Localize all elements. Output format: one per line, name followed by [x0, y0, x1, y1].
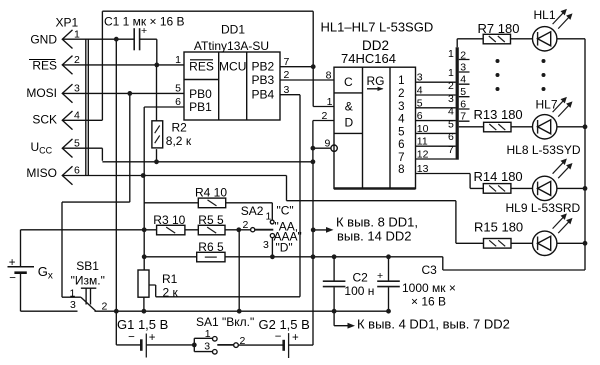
svg-text:R15 180: R15 180: [474, 220, 523, 235]
svg-text:RES: RES: [32, 59, 57, 73]
svg-text:"C": "C": [277, 204, 294, 218]
svg-text:+: +: [9, 257, 16, 269]
svg-text:R6 5: R6 5: [198, 240, 224, 254]
svg-text:−: −: [9, 273, 16, 285]
svg-text:6: 6: [460, 99, 466, 111]
svg-text:RG: RG: [367, 74, 385, 88]
svg-text:G1 1,5 В: G1 1,5 В: [117, 317, 168, 332]
svg-text:MISO: MISO: [26, 166, 57, 180]
svg-text:HL1–HL7 L-53SGD: HL1–HL7 L-53SGD: [321, 19, 434, 34]
svg-text:8,2 к: 8,2 к: [166, 134, 192, 148]
svg-text:2: 2: [243, 219, 249, 231]
svg-text:R7 180: R7 180: [478, 21, 520, 36]
svg-text:4: 4: [448, 106, 454, 118]
svg-text:4: 4: [74, 110, 80, 122]
svg-text:× 16 В: × 16 В: [411, 295, 446, 309]
svg-text:&: &: [345, 100, 353, 114]
svg-text:10: 10: [417, 123, 429, 135]
svg-text:6: 6: [417, 110, 423, 122]
svg-text:6: 6: [448, 131, 454, 143]
svg-text:R2: R2: [172, 121, 188, 135]
svg-text:DD1: DD1: [221, 23, 245, 37]
svg-text:G2 1,5 В: G2 1,5 В: [259, 317, 310, 332]
svg-text:"D": "D": [276, 241, 293, 255]
svg-text:SA1 "Вкл.": SA1 "Вкл.": [196, 315, 254, 329]
svg-text:C3: C3: [422, 263, 438, 277]
svg-text:13: 13: [417, 163, 429, 175]
svg-text:ATtiny13A-SU: ATtiny13A-SU: [194, 39, 269, 53]
svg-text:1: 1: [175, 54, 181, 66]
svg-text:4: 4: [460, 74, 466, 86]
svg-text:MCU: MCU: [219, 60, 246, 74]
svg-text:1: 1: [398, 75, 404, 87]
svg-text:6: 6: [398, 139, 404, 151]
svg-text:PB1: PB1: [189, 100, 212, 114]
svg-text:HL7: HL7: [536, 98, 558, 112]
svg-text:4: 4: [398, 114, 405, 126]
svg-text:выв. 14 DD2: выв. 14 DD2: [337, 229, 411, 244]
svg-text:HL8 L-53SYD: HL8 L-53SYD: [507, 143, 581, 157]
svg-text:9: 9: [324, 138, 330, 150]
svg-text:2: 2: [74, 54, 80, 66]
svg-text:R3 10: R3 10: [153, 213, 185, 227]
svg-text:+: +: [149, 332, 156, 344]
svg-text:2: 2: [284, 69, 290, 81]
svg-text:2 к: 2 к: [163, 285, 179, 299]
svg-text:2: 2: [448, 80, 454, 92]
svg-text:"Изм.": "Изм.": [71, 274, 105, 288]
svg-text:PB2: PB2: [251, 60, 274, 74]
svg-text:3: 3: [74, 83, 80, 95]
svg-text:R1: R1: [162, 272, 178, 286]
svg-text:PB3: PB3: [251, 73, 274, 87]
svg-text:+: +: [292, 332, 299, 344]
svg-text:1: 1: [70, 287, 76, 299]
svg-text:8: 8: [326, 69, 332, 81]
svg-text:5: 5: [448, 118, 454, 130]
svg-text:HL9 L-53SRD: HL9 L-53SRD: [506, 201, 581, 215]
svg-text:+: +: [141, 25, 147, 37]
svg-text:XP1: XP1: [56, 16, 79, 30]
svg-text:6: 6: [74, 165, 80, 177]
svg-text:R4 10: R4 10: [195, 186, 227, 200]
svg-text:2: 2: [102, 301, 108, 313]
svg-text:1: 1: [266, 211, 272, 223]
svg-text:1: 1: [448, 67, 454, 79]
svg-text:−: −: [128, 332, 135, 344]
svg-text:3: 3: [460, 62, 466, 74]
svg-text:PB0: PB0: [189, 87, 212, 101]
svg-text:7: 7: [460, 111, 466, 123]
svg-text:3: 3: [70, 299, 76, 311]
svg-text:D: D: [344, 116, 353, 130]
svg-text:SA2: SA2: [241, 204, 264, 218]
svg-text:RES: RES: [189, 60, 214, 74]
svg-text:2: 2: [321, 110, 327, 122]
svg-text:5: 5: [398, 126, 404, 138]
svg-text:+: +: [377, 270, 383, 282]
svg-text:6: 6: [175, 96, 181, 108]
svg-text:GND: GND: [30, 33, 57, 47]
svg-text:3: 3: [284, 84, 290, 96]
svg-text:8: 8: [398, 164, 404, 176]
svg-text:1000 мк ×: 1000 мк ×: [402, 281, 456, 295]
svg-text:C2: C2: [353, 271, 369, 285]
svg-text:R5 5: R5 5: [198, 213, 224, 227]
svg-text:MOSI: MOSI: [26, 86, 57, 100]
svg-text:1: 1: [205, 328, 211, 340]
svg-text:3: 3: [398, 101, 404, 113]
svg-text:3: 3: [417, 72, 423, 84]
svg-text:4: 4: [417, 85, 423, 97]
svg-text:К выв. 4 DD1, выв. 7 DD2: К выв. 4 DD1, выв. 7 DD2: [357, 316, 510, 331]
svg-text:2: 2: [398, 88, 404, 100]
svg-text:5: 5: [175, 83, 181, 95]
svg-text:C: C: [344, 75, 353, 89]
svg-text:К выв. 8 DD1,: К выв. 8 DD1,: [336, 214, 418, 229]
svg-text:7: 7: [398, 152, 404, 164]
svg-text:74HC164: 74HC164: [341, 51, 396, 66]
svg-text:1: 1: [327, 96, 333, 108]
svg-text:HL1: HL1: [534, 8, 556, 22]
svg-text:−: −: [275, 331, 282, 343]
svg-text:12: 12: [417, 149, 429, 161]
svg-text:11: 11: [417, 136, 428, 148]
svg-text:5: 5: [74, 137, 80, 149]
svg-text:2: 2: [460, 49, 466, 61]
svg-text:7: 7: [448, 144, 454, 156]
svg-text:3: 3: [263, 239, 269, 251]
svg-text:3: 3: [204, 341, 210, 353]
svg-text:7: 7: [284, 56, 290, 68]
svg-text:1: 1: [74, 28, 80, 40]
svg-text:R14 180: R14 180: [474, 169, 523, 184]
svg-text:3: 3: [448, 93, 454, 105]
svg-text:R13 180: R13 180: [474, 107, 523, 122]
svg-text:100 н: 100 н: [344, 284, 374, 298]
svg-text:5: 5: [417, 97, 423, 109]
svg-text:5: 5: [460, 86, 466, 98]
svg-text:SCK: SCK: [32, 113, 57, 127]
svg-text:PB4: PB4: [251, 88, 274, 102]
svg-text:2: 2: [240, 335, 246, 347]
svg-text:1: 1: [448, 48, 454, 60]
svg-text:SB1: SB1: [76, 259, 99, 273]
